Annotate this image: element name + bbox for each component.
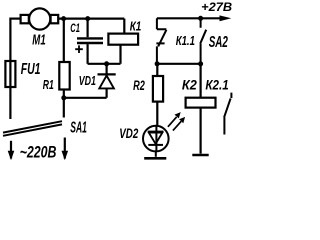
wire R1 branch [63, 19, 65, 62]
svg-text:М1: М1 [32, 31, 45, 48]
node top-R1 junction [61, 16, 66, 21]
svg-text:~220В: ~220В [20, 143, 57, 161]
resistor R2 [156, 64, 158, 76]
svg-text:FU1: FU1 [21, 61, 41, 78]
svg-text:С1: С1 [70, 21, 80, 35]
contact K2.1 [224, 93, 231, 135]
wire +27V top rail [157, 17, 222, 19]
svg-text:К2: К2 [182, 76, 197, 92]
terminal bar under VD2 [144, 157, 166, 160]
wire R1 bottom lead [63, 90, 65, 98]
resistor R1 [59, 62, 69, 90]
node A (C1/VD1/K1 junction) [104, 61, 109, 66]
svg-text:К1: К1 [130, 19, 142, 34]
wire node B down to SA1 [63, 98, 65, 118]
fuse FU1 [5, 61, 15, 87]
svg-text:SА1: SА1 [70, 119, 87, 136]
wire C1 bottom to node A to K1 bottom [88, 45, 121, 64]
switch SA1 (double pole blades) [3, 121, 62, 136]
wire node B to VD1 bottom [64, 88, 107, 97]
motor M1 [29, 8, 50, 29]
svg-text:VD2: VD2 [119, 125, 138, 141]
wire K2 top lead [200, 64, 202, 98]
relay coil K2 [186, 98, 216, 108]
wire left column (through fuse) [9, 18, 11, 120]
relay coil K1 [108, 34, 138, 45]
svg-text:+27В: +27В [201, 0, 232, 14]
svg-text:R2: R2 [133, 78, 145, 93]
capacitor C1 [86, 19, 88, 38]
node R2 junction [155, 61, 160, 66]
node top-C1 junction [85, 16, 90, 21]
arrow ~220V right [62, 151, 69, 161]
wire SA1 left bottom lead [10, 141, 12, 159]
node K2 junction [198, 61, 203, 66]
wire bottom-right rail [157, 63, 201, 65]
wire K1 top lead [123, 19, 125, 34]
node SA2 top junction [198, 16, 203, 21]
LED VD2 [143, 126, 169, 152]
wire SA1 right bottom lead [64, 138, 66, 159]
svg-text:К2.1: К2.1 [205, 76, 228, 92]
switch SA2 [200, 18, 206, 64]
svg-text:VD1: VD1 [79, 74, 96, 88]
terminal bar under K2 [192, 154, 208, 157]
node B (R1/SA1/VD1 junction) [61, 95, 66, 100]
diode VD1 [105, 64, 107, 75]
arrow ~220V left [8, 151, 15, 161]
wire top rail [58, 18, 124, 20]
arrow +27V [220, 15, 232, 21]
contact K1.1 [156, 18, 166, 64]
svg-text:SА2: SА2 [209, 34, 228, 51]
svg-text:К1.1: К1.1 [176, 34, 195, 48]
wire motor left lead [10, 18, 20, 20]
LED arrows [168, 117, 181, 131]
svg-text:R1: R1 [43, 78, 54, 92]
wire K2 bottom lead [200, 108, 202, 154]
